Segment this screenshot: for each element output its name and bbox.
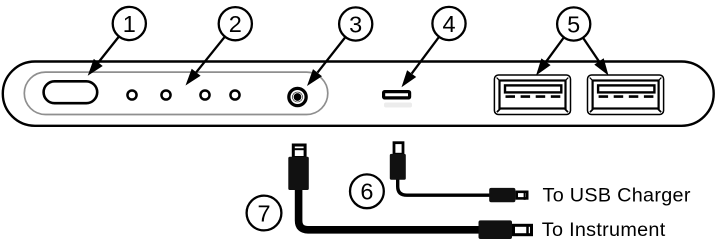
callout 6 bubble <box>350 174 384 208</box>
cable 6 (charging cable) <box>398 176 490 195</box>
svg-text:3: 3 <box>349 11 362 37</box>
callout 1 bubble <box>113 7 146 40</box>
callout 1 leader arrow <box>88 24 130 76</box>
svg-text:5: 5 <box>567 11 580 37</box>
plug 7 tip <box>514 224 532 236</box>
callout 7 bubble <box>247 196 282 231</box>
callout 3 leader arrow <box>307 24 356 86</box>
USB output port A <box>494 75 570 115</box>
svg-text:2: 2 <box>229 11 242 37</box>
connector 6 micro-USB plug tip <box>394 143 403 155</box>
connector 6 micro-USB plug body <box>390 154 406 180</box>
LED indicator D3 <box>200 90 209 99</box>
svg-text:1: 1 <box>123 11 136 37</box>
svg-text:6: 6 <box>360 179 373 205</box>
callout 3 bubble <box>339 7 372 40</box>
LED indicator D1 <box>127 90 136 99</box>
svg-text:To Instrument: To Instrument <box>542 219 666 241</box>
connector 7 barrel plug tip <box>293 145 306 158</box>
LED indicator D2 <box>161 90 170 99</box>
DC input jack <box>289 88 306 105</box>
micro-USB input port <box>384 92 410 98</box>
plug 6 USB-A tip <box>517 191 528 200</box>
callout 2 leader arrow <box>186 24 236 86</box>
svg-text:To USB Charger: To USB Charger <box>543 185 691 207</box>
micro-USB port shadow <box>384 103 412 108</box>
power button <box>44 81 98 103</box>
callout 2 bubble <box>219 7 252 40</box>
LED indicator D4 <box>230 90 239 99</box>
callout 4 bubble <box>432 7 465 40</box>
callout 5 leader arrow right <box>574 24 609 76</box>
callout 4 leader arrow <box>402 24 450 88</box>
control panel inset <box>24 72 328 114</box>
connector 7 barrel plug body <box>288 157 309 190</box>
USB output port B <box>588 75 664 115</box>
cable 7 (instrument cable) <box>299 186 481 230</box>
svg-text:4: 4 <box>442 11 455 37</box>
plug 7 body <box>479 220 513 239</box>
svg-text:7: 7 <box>257 200 270 226</box>
plug 6 USB-A body <box>489 188 515 202</box>
callout 5 leader arrow left <box>536 24 574 76</box>
device body (power bank) <box>3 62 714 126</box>
callout 5 bubble <box>557 7 590 40</box>
